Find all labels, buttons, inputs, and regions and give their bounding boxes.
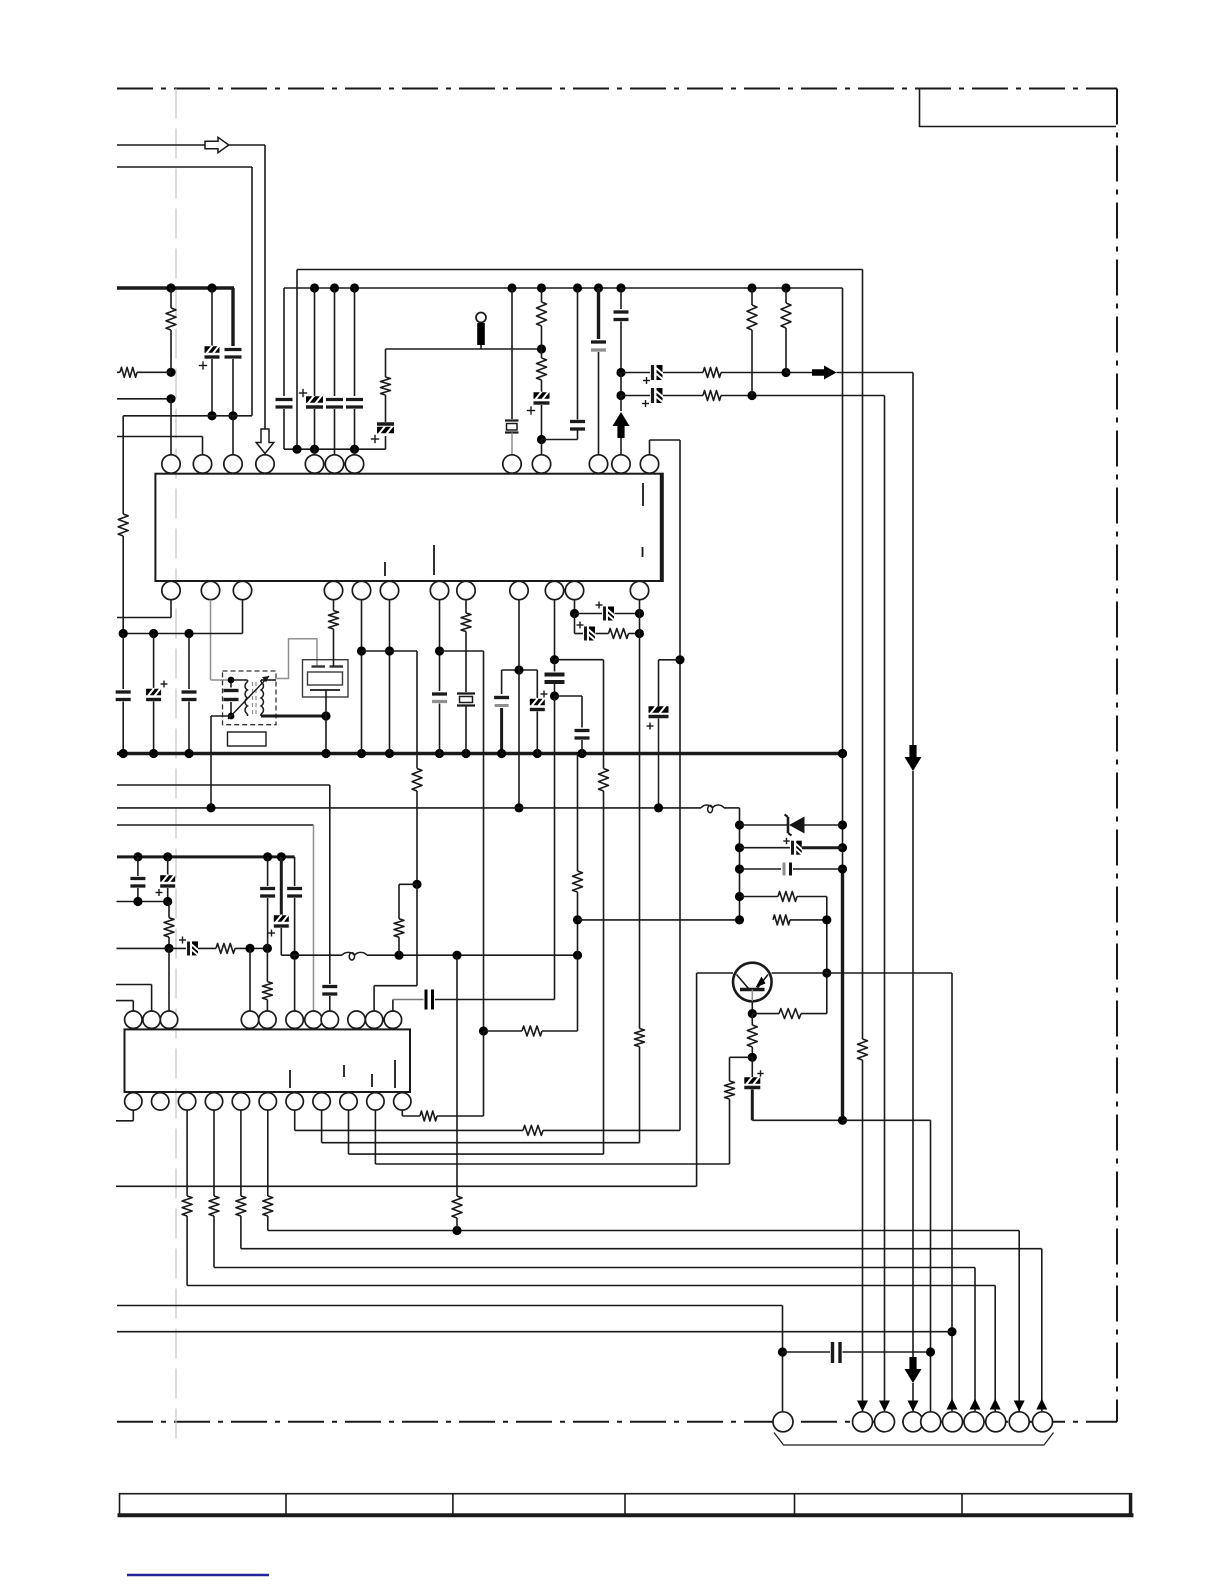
resistor R9 on x123 <box>118 514 128 536</box>
staircase wire pin 321.6 <box>321 1110 323 1143</box>
staircase wire pin 294.7 <box>294 1110 296 1130</box>
wire x329.8 down <box>329 785 331 984</box>
wire x577.5 cont <box>577 892 579 1031</box>
junction dot on inductor line <box>514 803 523 812</box>
transistor Q1 base bar <box>740 988 765 992</box>
resistor R12 pin8b x466 <box>465 600 467 613</box>
transistor Q1 arrow <box>756 977 766 988</box>
bus corner down x284 <box>283 288 285 396</box>
wire y670 <box>502 669 538 671</box>
wire x603.5 cont <box>603 791 605 1154</box>
wire net5 y436.5 to pin2 <box>117 436 203 438</box>
dots y856.9 <box>133 852 142 861</box>
resistor R13 x603.5 <box>599 769 609 792</box>
electrolytic capacitor C-A at x212 <box>211 288 213 346</box>
wire x729.5 cont <box>729 1099 731 1164</box>
resistor R25 y1116 line <box>402 1115 420 1117</box>
wire to pin9 <box>541 440 543 455</box>
resistor R1 above C5 <box>381 377 391 395</box>
resistor R23 below pin x187.1 <box>186 1110 188 1196</box>
transistor Q1 collector stub inside <box>751 990 753 1002</box>
ladder dots x739.5 <box>735 820 744 829</box>
junction dots <box>245 944 254 953</box>
arrowhead up at pin 974 <box>970 1399 981 1410</box>
junction dots y955.3 <box>394 951 403 960</box>
resistor R11 x417 <box>412 769 422 792</box>
electrolytic capacitor C5 at x385.5 <box>385 436 387 449</box>
electrolytic capacitor C21 x658.5 <box>659 659 681 661</box>
module ground wire <box>325 690 327 754</box>
wire y651 segment A <box>362 650 418 652</box>
wire net4 horizontal y415.8 <box>123 415 252 417</box>
black up arrow into pin11 <box>613 412 630 438</box>
IC U1 inner tick 2 <box>433 545 435 575</box>
wire x913 end <box>912 1383 914 1411</box>
base wire y973 <box>697 972 733 974</box>
capacitor C4 at x354.5 <box>354 288 356 396</box>
resistor R14 on y633.5 <box>609 629 629 639</box>
wire net6 long horizontal y269.5 <box>297 269 863 271</box>
transformer T1 windings <box>245 682 247 714</box>
wire net1 to corner <box>229 144 265 146</box>
thick supply bus top-left <box>117 286 234 289</box>
resistor R6 vertical x752 <box>751 288 753 305</box>
capacitor C29 line y999.5 <box>392 1000 394 1012</box>
IC U2 inner tick 4 <box>394 1060 396 1088</box>
footer link line (blue) <box>127 1574 269 1577</box>
wire x294.6 down <box>294 857 296 886</box>
wire y696 to C18 <box>555 695 583 697</box>
wire x884.5 vertical <box>884 396 886 1412</box>
resistor R22 below pin x214 <box>213 1110 215 1196</box>
IC U1 bottom pins <box>162 581 180 599</box>
resistor R10 pin4b to module <box>333 600 335 611</box>
connector brace <box>774 1433 1054 1446</box>
long wire y1248.7 <box>241 1248 1042 1250</box>
wire x639.5 cont <box>639 1047 641 1143</box>
resistor R7 vertical x786 <box>785 288 787 303</box>
IC U2 top pins <box>125 1011 142 1028</box>
resistor R18 x267.4 <box>266 948 268 981</box>
wire y659.7 to x603.5 <box>555 659 604 661</box>
thick wire y856.9 <box>117 855 295 858</box>
capacitor C12 x123 <box>122 634 124 690</box>
capacitor C8 at x598.5 (thick top lead) <box>597 288 600 339</box>
junction dots y633.5 <box>119 629 128 638</box>
wire x577.5 lower <box>577 754 579 872</box>
resistor R33 on staircase line <box>523 1125 543 1135</box>
resistor R8 on x862.5 <box>858 1039 868 1060</box>
resistor R4 on upper line <box>703 368 721 378</box>
bus corner x842.5 vertical <box>842 288 844 869</box>
open down arrow into pin 4 <box>256 429 274 454</box>
capacitor C17 x554.5 thick plates <box>554 660 556 672</box>
arrowhead up at pin 1042 <box>1036 1399 1047 1410</box>
junction dot <box>947 1327 956 1336</box>
junction dot <box>748 1009 757 1018</box>
wire pin5 pin7 drops <box>314 449 316 455</box>
transformer T1 dashed box <box>223 671 277 725</box>
wire pin6b down x389.5 <box>389 600 391 754</box>
junction dot y349 x541.5 <box>537 344 546 353</box>
wire pin10b down x554.5 <box>554 600 556 660</box>
electrolytic capacitor C32 below dot <box>757 1073 763 1075</box>
junction dot <box>781 368 790 377</box>
board outline dash-dot border top <box>117 88 1117 90</box>
wire x169.9 to pin <box>168 948 170 1011</box>
junction dot <box>748 1053 757 1062</box>
wire net6 left corner down <box>296 270 298 450</box>
wire x483.5 to y1116 corner <box>483 1031 485 1116</box>
staircase wire pin 375.4 (to emitter chain) <box>374 1110 376 1164</box>
electrolytic capacitor C2 at x314.5 <box>314 288 316 396</box>
transformer T1 trimmer arrow <box>228 676 269 719</box>
gray wire pin2b to transformer <box>210 600 212 680</box>
wire x621 down <box>620 373 622 396</box>
IC U1 inner tick 4 <box>642 547 644 557</box>
capacitor C7 at x577.5 <box>577 429 579 440</box>
electrolytic capacitor C25 x167.7 <box>167 857 169 876</box>
electrolytic capacitor C19 on y613.5 <box>575 613 603 615</box>
resistor R26 y1031 <box>484 1030 523 1032</box>
wire y372.5 cont <box>721 372 786 374</box>
wire x554.5 long down <box>554 696 556 1000</box>
junction dot <box>537 435 546 444</box>
electrolytic capacitor C11 on lower line y395.5 <box>621 395 650 397</box>
wire x483.5 vertical <box>483 651 485 1031</box>
junction dot <box>550 655 559 664</box>
wire y439.5 to C7 <box>542 439 578 441</box>
capacitor C24 x137.9 <box>137 857 139 876</box>
junction dot <box>747 391 756 400</box>
wire x294.6 to pin <box>294 955 296 1011</box>
wire pin3b down <box>242 600 244 634</box>
wire x574.5 to y633.5 <box>574 614 576 634</box>
electrolytic capacitor C6 <box>534 392 550 400</box>
long wire y1267.5 <box>214 1267 975 1269</box>
module bottom bar <box>310 689 340 691</box>
wire x913 cont <box>912 771 914 1357</box>
wire stub y984.5 <box>116 984 152 986</box>
IC U1 right edge thick <box>660 474 663 581</box>
IC U1 inner tick 1 <box>384 562 386 576</box>
staircase wire pin 348.5 <box>348 1110 350 1154</box>
long wire y1230.5 <box>268 1230 1019 1232</box>
capacitor C33 y1352 <box>783 1351 831 1353</box>
inductor line y955.3 <box>295 954 342 956</box>
capacitor C22 x329.8 <box>322 985 337 988</box>
junction wire y633.5 <box>123 633 242 635</box>
wire net2 <box>117 166 252 168</box>
ladder dots x842.5 <box>838 749 847 758</box>
collector wire y973 right <box>772 972 952 974</box>
junction dots on bus <box>310 283 319 292</box>
resistor R3 below R2 <box>537 358 547 380</box>
black right arrow on net y372.5 <box>812 366 837 380</box>
arrowhead down at pin <box>857 1401 868 1412</box>
transistor Q1 <box>733 963 772 1002</box>
dots y901.5 <box>133 897 142 906</box>
junction dot <box>166 368 175 377</box>
thick segment x842.5 <box>841 869 844 1120</box>
capacitor C31 y869 <box>740 868 782 870</box>
IC U1 top pins <box>162 455 180 473</box>
arrowhead up at pin 995 <box>990 1399 1001 1410</box>
junction dot <box>207 411 216 420</box>
ground bus dots <box>119 749 128 758</box>
wire pin12t x649.5 up and over <box>649 440 651 455</box>
wire pin7b down x439.5 <box>439 600 441 691</box>
crystal X2 at x466 <box>457 692 475 694</box>
transformer T1 core lines <box>252 682 254 714</box>
resistor R17 horizontal <box>216 943 235 953</box>
ground bus thick <box>117 752 843 755</box>
electrolytic capacitor C30 y847.7 <box>740 847 791 849</box>
electrolytic capacitor C26 horizontal <box>169 947 186 949</box>
wire x233 to pin3 <box>232 416 234 455</box>
base drive wire from left edge y1186.3 <box>116 1185 697 1187</box>
big flow arrow down <box>905 745 922 771</box>
resistor R19 x399 <box>399 883 417 885</box>
wire pin12b down x639.5 <box>639 600 641 1029</box>
wire y901.5 <box>117 901 170 903</box>
wire y955.3 cont <box>367 954 578 956</box>
title block table <box>120 1494 1132 1515</box>
wire x696.6 vertical <box>696 973 698 1186</box>
long wire y1331.7 <box>117 1331 952 1333</box>
junction dot <box>228 411 237 420</box>
resistor R15 x639.5 <box>635 1029 645 1047</box>
connector CN1 pins <box>773 1412 793 1432</box>
resistor R21 below pin x240.9 <box>240 1110 242 1196</box>
wire to ladder <box>724 807 740 809</box>
wire pin 402.3 down <box>401 1110 403 1116</box>
capacitor C15 x439.5 <box>432 692 447 695</box>
wire x417 lower: dot and step to pin <box>412 880 421 889</box>
transformer T1 bottom-left wire <box>211 715 231 717</box>
electrolytic capacitor C20 on y633.5 <box>575 633 584 635</box>
junction dot <box>164 944 173 953</box>
wire y349 to R2 chain <box>386 348 542 350</box>
IC U2 inner tick 3 <box>371 1074 373 1087</box>
resistor R5 on lower line <box>703 391 721 401</box>
long wire y1285.5 <box>187 1285 995 1287</box>
wire x862.5 cont <box>862 1060 864 1411</box>
wire x913 vertical <box>912 373 914 746</box>
arrowhead up at pin 952 <box>947 1399 958 1410</box>
wire y948.4 cont <box>235 947 267 949</box>
junction wire y449.2 <box>284 448 386 450</box>
resistor R24 x457 <box>456 955 458 1196</box>
junction dot <box>926 1347 935 1356</box>
staircase line cont <box>543 1129 680 1131</box>
wire to arrow <box>620 396 622 412</box>
module top bars <box>312 665 326 667</box>
junction dot <box>357 646 366 655</box>
resistor R-A vertical at x171 <box>170 288 172 308</box>
electrolytic capacitor C10 on upper line y372.5 <box>621 372 650 374</box>
title box top right <box>920 89 1117 127</box>
wire C28 to junction <box>281 954 294 956</box>
gray wire transformer to crystal module <box>276 639 317 679</box>
big flow arrow down 2 <box>905 1357 922 1383</box>
fold guide line (light gray vertical) <box>175 89 177 1441</box>
board outline dash-dot border bottom (connector row) <box>117 1421 1117 1423</box>
junction dot C21 tie <box>654 803 663 812</box>
junction dot <box>573 915 582 924</box>
wire y651 segment B <box>440 650 484 652</box>
gray wire y825 <box>117 824 314 826</box>
resistor R27 x577.5 <box>573 871 583 892</box>
wire stub below pin1 <box>132 1110 134 1121</box>
junction dot <box>207 283 216 292</box>
resistor R29 y919.9 <box>773 915 790 925</box>
arrowhead down at pin <box>879 1401 890 1412</box>
resistor R16 x169 <box>168 902 170 918</box>
capacitor C9 at x621 <box>620 288 622 309</box>
IC U2 inner tick 2 <box>343 1065 345 1077</box>
IC U2 bottom pins <box>125 1093 142 1110</box>
wire x417 down <box>416 651 418 769</box>
capacitor C34 x501.6 <box>501 670 503 694</box>
resistor R28 y896.5 <box>740 896 779 898</box>
wire x250 to pin <box>249 948 251 1011</box>
IC U1 inner tick 3 <box>642 483 644 506</box>
junction dot <box>570 609 579 618</box>
long wire y1305.5 <box>117 1305 783 1307</box>
corner to connector pin 1019 <box>1018 1231 1020 1412</box>
wire y1120.3 cont <box>843 1119 931 1121</box>
junction dot <box>452 1226 461 1235</box>
junction dot <box>514 665 523 674</box>
resistor R20 below pin x267.8 <box>267 1110 269 1196</box>
capacitor C18 x582 <box>581 696 583 728</box>
junction dot x483.5 <box>479 1026 488 1035</box>
wire pin9b down long <box>518 600 520 808</box>
diode D1 y825 (points left) <box>740 824 788 826</box>
resistor R2 at x541.5 <box>541 288 543 302</box>
resistor R32 x729.5 <box>725 1081 735 1099</box>
capacitor C-B at x233 (thick lead) <box>231 288 234 346</box>
wire y785 <box>117 784 330 786</box>
junction dot <box>616 391 625 400</box>
IC U1 main body <box>155 474 662 581</box>
wire pin5b down x361.5 <box>361 600 363 754</box>
junction dot <box>675 655 684 664</box>
resistor R30 horizontal emitter <box>752 1013 779 1015</box>
supply bus y288 <box>284 287 843 289</box>
module inner rect <box>308 672 343 685</box>
wire x417 cont <box>416 791 418 884</box>
capacitor C3 at x334.5 <box>334 288 336 396</box>
crystal X1 at x512 <box>511 288 513 419</box>
wire pin11b down x574.5 <box>574 600 576 614</box>
crystal oscillator module box <box>303 660 349 697</box>
junction dot <box>385 646 394 655</box>
resistor R-B horizontal left stub <box>120 367 137 377</box>
wire y919.9 <box>578 919 740 921</box>
wire pin1b stub <box>170 600 172 618</box>
wire x826.8 down <box>826 897 828 1014</box>
signal flow arrow (open, right) <box>205 137 229 152</box>
junction dot <box>166 283 175 292</box>
transformer T1 bottom-right thick wire <box>261 715 326 718</box>
junction dot <box>550 691 559 700</box>
electrolytic capacitor C28 x281.3 thick lead <box>280 857 283 916</box>
junction dot on bus <box>497 749 506 758</box>
board outline dash-dot border right <box>1116 89 1118 1422</box>
capacitor C23 x294.6 <box>287 887 302 890</box>
wire x952 collector drop <box>951 973 953 1411</box>
inductor L1 <box>701 805 724 813</box>
wire net1 left stub <box>117 144 205 146</box>
IC U2 main body <box>125 1029 411 1092</box>
transistor Q1 diagonals <box>737 975 749 989</box>
junction dot <box>166 394 175 403</box>
transformer label box <box>228 732 267 746</box>
junction dots x826.8 <box>822 915 831 924</box>
junction dot <box>206 803 215 812</box>
capacitor C27 x267.6 upper <box>267 857 269 886</box>
wire y395.5 cont <box>721 395 885 397</box>
wire stub y1000.6 <box>116 1000 133 1002</box>
IC U2 inner tick 1 <box>289 1070 291 1088</box>
wire y948.4 <box>117 947 170 949</box>
wire net4 vertical drop x123 <box>122 416 124 514</box>
wire y807.9 long <box>117 807 701 809</box>
junction dot <box>778 1347 787 1356</box>
emitter wire down <box>751 1001 753 1013</box>
wire x862.5 vertical (net6) <box>862 270 864 1040</box>
junction dot <box>838 1116 847 1125</box>
junction dot <box>616 368 625 377</box>
wire x603.5 down <box>603 660 605 769</box>
wire net3 <box>117 398 171 400</box>
resistor R31 vertical emitter <box>751 1014 753 1025</box>
junction dot <box>290 951 299 960</box>
transformer T1 primary series caps <box>230 680 232 688</box>
junction dot <box>435 646 444 655</box>
capacitor C1 at x284 <box>276 398 293 401</box>
wire to pin1 <box>170 399 172 455</box>
thermistor/sensor TH1 at x481 <box>476 313 486 323</box>
electrolytic capacitor C16 x537.3 <box>536 670 538 699</box>
thick wire C32 to ground net <box>751 1090 754 1121</box>
wire to R32 <box>730 1056 753 1058</box>
inductor L2 <box>342 952 367 960</box>
arrowhead down at pin <box>908 1401 919 1412</box>
capacitor C14 x189 <box>188 634 190 690</box>
electrolytic capacitor C13 x153.6 <box>153 634 155 690</box>
junction dots x639.5 <box>635 609 644 618</box>
